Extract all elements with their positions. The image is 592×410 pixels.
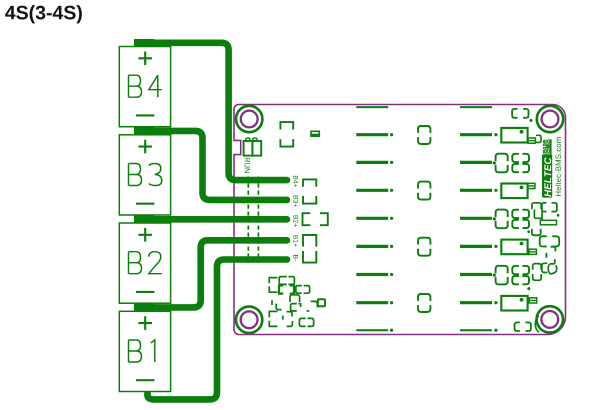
resistor bar right row 5 [460, 217, 492, 220]
resistor bar right row 8 [460, 301, 492, 304]
footprint marks right of row7 [527, 255, 556, 290]
pad B- courtyard [303, 251, 316, 263]
via dot left row 4 [390, 189, 393, 192]
via dot left row 5 [390, 217, 393, 220]
label RUN [245, 158, 250, 173]
footprint cluster bottom-left [269, 277, 325, 327]
wire B4+ (battery B4 plus to pad B4+) [152, 43, 287, 180]
via dot right row 3 [493, 161, 496, 164]
node B- label [293, 255, 298, 261]
resistor bar left row 4 [356, 189, 388, 192]
mounting hole bottom-left [236, 307, 262, 333]
resistor bar right row 6 [460, 245, 492, 248]
pad B1+ courtyard [303, 235, 316, 247]
pad B3+ courtyard [303, 196, 316, 204]
via dot right row 7 [493, 274, 496, 277]
capacitor capsule mid row 6 [418, 238, 430, 256]
node B2+ label [293, 215, 298, 226]
transistor footprint row 3 [496, 154, 529, 173]
capacitor caps row 9 [515, 322, 531, 331]
footprint bracket pair top [280, 122, 293, 147]
dashed silk line 2 [257, 177, 259, 263]
capacitor caps row 1 [512, 109, 532, 122]
transistor footprint row 5 [496, 210, 529, 229]
board outline (PCB edge) [234, 105, 566, 335]
node B3+ label [293, 196, 298, 207]
resistor bar left row 8 [356, 301, 388, 304]
resistor bar right row 1 [460, 106, 492, 108]
pad B2+ courtyard left [303, 213, 311, 225]
B4-/B3+ junction tab [134, 127, 154, 135]
dashed silk line 1 [247, 177, 249, 263]
resistor bar right row 7 [460, 273, 492, 276]
battery B4 [119, 47, 170, 127]
battery B2 [119, 223, 170, 303]
arc near bottom-right hole [535, 316, 539, 333]
footprint split box below logo [540, 236, 560, 257]
via dot left row 8 [390, 301, 393, 304]
title 4S(3-4S) [5, 5, 82, 23]
via dot left row 6 [390, 245, 393, 248]
capacitor capsule mid row 2 [418, 126, 430, 144]
mounting hole top-left [236, 106, 262, 132]
wire B3+ (B4-/B3+ junction to pad B3+) [152, 131, 287, 200]
IC rect row 8 [501, 296, 536, 311]
logo BMS underline [550, 139, 552, 154]
IC rect row 6 [501, 240, 536, 255]
via dot right row 9 [494, 329, 497, 332]
resistor bar right row 9 [460, 329, 492, 331]
node B4+ label [293, 176, 298, 187]
via dot right row 4 [494, 189, 497, 192]
small component square [311, 131, 319, 136]
via dot left row 7 [390, 273, 393, 276]
via dot right row 6 [494, 245, 497, 248]
resistor bar right row 3 [460, 161, 492, 164]
IC rect row 2 [501, 128, 535, 143]
pad B2+ courtyard right [320, 213, 328, 225]
logo Heltec-BMS.com text [555, 137, 561, 196]
capacitor capsule mid row 4 [418, 182, 430, 200]
mounting hole bottom-right [537, 306, 563, 332]
node B1+ label [293, 235, 298, 246]
wire B- (battery B1 minus to pad B-) [144, 391, 151, 396]
via dot right row 8 [494, 301, 497, 304]
logo HELTEC text [544, 157, 551, 196]
IC rect row 4 [501, 183, 535, 198]
resistor bar left row 1 [356, 106, 388, 108]
battery B1 [119, 311, 170, 391]
pad B4+ courtyard [303, 179, 316, 186]
transistor footprint row 7 [496, 266, 529, 285]
footprint U below logo [527, 229, 540, 235]
wire B1+ (B2-/B1+ junction to pad B1+) [152, 240, 287, 307]
resistor bar left row 3 [356, 161, 388, 164]
resistor bar left row 9 [356, 329, 388, 331]
B2-/B1+ junction tab [134, 304, 154, 312]
capacitor capsule mid row 8 [418, 294, 430, 312]
via dot left row 2 [390, 133, 393, 136]
B4 + terminal tab [134, 39, 154, 47]
via dot right row 2 [494, 133, 497, 136]
logo BMS text [543, 140, 550, 153]
footprint marks right of row5 [532, 203, 559, 225]
via dot left row 3 [390, 161, 393, 164]
resistor bar left row 5 [356, 217, 388, 220]
connector RUN [244, 138, 262, 156]
resistor bar left row 6 [356, 245, 388, 248]
resistor bar left row 7 [356, 273, 388, 276]
resistor bar right row 4 [460, 189, 492, 192]
resistor bar left row 2 [356, 133, 388, 136]
B3-/B2+ junction tab [134, 215, 154, 223]
logo HELTEC box [542, 154, 552, 197]
wire B2+ (B3-/B2+ junction to pad B2+) [152, 216, 287, 223]
via dot left row 9 [390, 329, 393, 332]
mounting hole top-right [537, 106, 563, 132]
resistor bar right row 2 [460, 133, 492, 136]
bracket left of logo top [536, 135, 541, 142]
via dot right row 5 [493, 217, 496, 220]
battery B3 [119, 135, 170, 215]
